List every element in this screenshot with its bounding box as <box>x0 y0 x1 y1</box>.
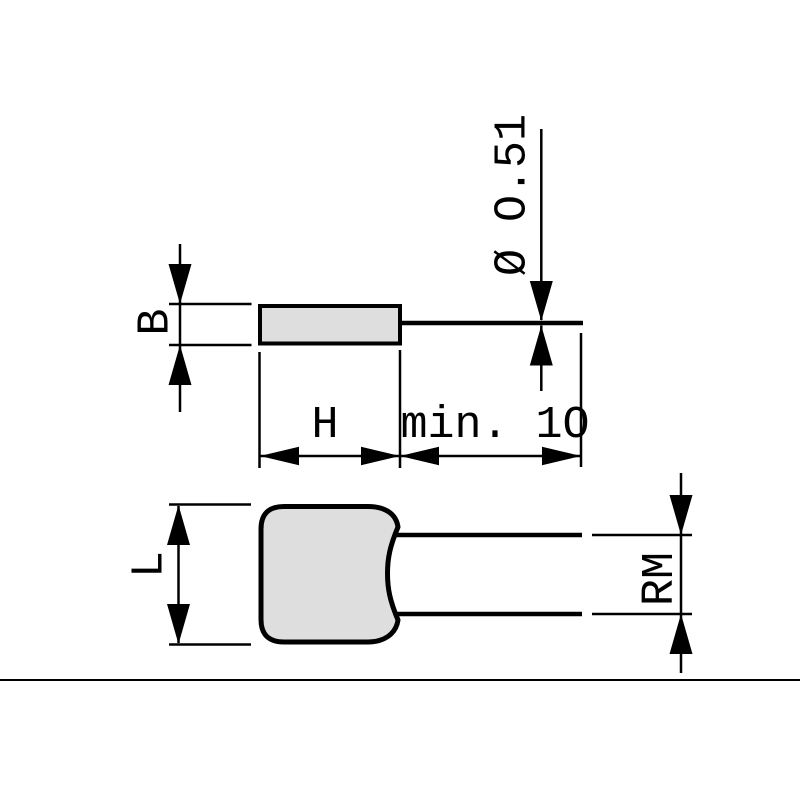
dimension L extension line bottom <box>169 643 251 646</box>
dimension H extension line right <box>399 350 402 468</box>
svg-text:L: L <box>125 551 176 578</box>
dimension line H and min10 <box>260 455 582 458</box>
dimension B arrow line <box>179 244 182 412</box>
diameter dimension line <box>540 129 543 320</box>
lead bottom front view <box>394 612 582 617</box>
lead extension line bottom <box>592 613 692 616</box>
dimension H extension line left <box>258 352 261 468</box>
bottom border line <box>0 679 800 681</box>
dimension H arrow left <box>260 447 299 466</box>
dimension RM arrow line <box>680 473 683 673</box>
svg-text:RM: RM <box>635 552 686 606</box>
svg-text:min. 1O: min. 1O <box>400 400 589 451</box>
dimension B extension line bottom <box>169 344 252 347</box>
dimension min10 arrow left <box>400 447 439 466</box>
dimension H arrow right <box>361 447 400 466</box>
svg-text:B: B <box>131 308 182 335</box>
dimension L arrow line <box>177 506 180 643</box>
dimension RM arrow bottom <box>670 614 693 654</box>
dimension L extension line top <box>169 503 251 506</box>
dimension min10 extension line right <box>580 333 583 467</box>
lead wire side view <box>402 321 583 326</box>
dimension RM arrow top <box>670 495 693 535</box>
capacitor body front view <box>261 507 398 643</box>
svg-text:Ø O.51: Ø O.51 <box>488 114 539 276</box>
dimension min10 arrow right <box>542 447 581 466</box>
dimension B arrow bottom <box>169 345 192 385</box>
dimension B arrow top <box>169 264 192 304</box>
diameter arrow lower tail <box>540 326 543 392</box>
dimension L arrow top <box>167 505 190 545</box>
dimension B extension line top <box>169 303 252 306</box>
svg-text:H: H <box>311 400 338 451</box>
dimension L arrow bottom <box>167 604 190 644</box>
capacitor body side view <box>260 306 400 344</box>
lead top front view <box>394 533 582 538</box>
lead extension line top <box>592 534 692 537</box>
diameter arrow lower <box>530 326 553 366</box>
diameter arrow upper <box>530 281 553 321</box>
